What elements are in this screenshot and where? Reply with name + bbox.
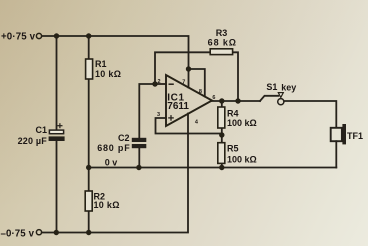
- svg-text:7611: 7611: [167, 101, 189, 112]
- svg-text:100 kΩ: 100 kΩ: [227, 118, 257, 128]
- resistor R1: [86, 59, 93, 79]
- svg-text:C1: C1: [35, 125, 47, 135]
- svg-text:68 kΩ: 68 kΩ: [208, 38, 237, 48]
- wire bottom -0.75V rail: [42, 114, 188, 233]
- svg-text:R1: R1: [95, 59, 107, 69]
- capacitor C1 bottom plate: [49, 136, 65, 141]
- svg-text:–0·75 v: –0·75 v: [1, 228, 35, 239]
- svg-text:+0·75 v: +0·75 v: [1, 32, 36, 43]
- wire switch lever: [260, 96, 278, 101]
- transformer TF1 body: [331, 128, 342, 141]
- svg-text:R5: R5: [227, 144, 239, 154]
- resistor R4: [218, 107, 225, 128]
- wire C1 top branch: [56, 36, 58, 131]
- op-amp plus input mark: [168, 115, 174, 121]
- node 0V / R5: [219, 165, 224, 170]
- wire C2 top branch to pin2: [139, 84, 155, 138]
- svg-text:220 µF: 220 µF: [18, 136, 48, 146]
- node pin7/8 strap: [186, 66, 191, 71]
- wire R4 top: [221, 101, 223, 107]
- wire pin 2 input: [155, 83, 166, 85]
- node R4 / R5 / pin3: [219, 132, 224, 137]
- capacitor C2 bottom plate: [132, 144, 147, 148]
- wire pin7/8 strap: [189, 69, 205, 97]
- node bottom rail / C1: [54, 230, 59, 235]
- capacitor C1 top plate: [49, 130, 63, 134]
- wire output pin6: [212, 100, 261, 102]
- terminal -0.75V: [36, 230, 41, 235]
- svg-text:10 kΩ: 10 kΩ: [95, 69, 121, 79]
- wire switch to TF1: [284, 101, 336, 127]
- op-amp U1 triangle: [166, 75, 212, 126]
- transformer TF1 bar: [342, 124, 346, 144]
- svg-text:680 pF: 680 pF: [97, 143, 130, 153]
- wire 0V line: [89, 167, 337, 169]
- wire R4 bottom: [221, 128, 223, 135]
- switch S1 contact triangle: [278, 93, 283, 98]
- wire R5 bottom: [221, 163, 223, 167]
- capacitor C2 top plate: [132, 138, 147, 142]
- svg-text:R3: R3: [216, 28, 228, 38]
- resistor R2: [85, 191, 92, 211]
- op-amp minus input mark: [169, 83, 174, 85]
- svg-text:TF1: TF1: [347, 131, 363, 141]
- svg-text:C2: C2: [118, 133, 130, 143]
- wire R5 top: [221, 135, 223, 143]
- node pin2 / R3 / C2: [152, 81, 157, 86]
- wire R3 right to output: [233, 52, 238, 101]
- svg-text:4: 4: [195, 119, 199, 125]
- wire top +0.75V rail: [42, 36, 189, 88]
- svg-text:7: 7: [182, 80, 185, 86]
- resistor R3: [210, 49, 232, 55]
- svg-text:3: 3: [157, 112, 160, 118]
- node 0V / R1 R2: [86, 165, 91, 170]
- node output / R3: [235, 98, 240, 103]
- svg-text:6: 6: [212, 95, 215, 101]
- svg-text:8: 8: [199, 89, 202, 95]
- node 0V / C2: [136, 165, 141, 170]
- svg-text:key: key: [281, 82, 296, 92]
- svg-text:100 kΩ: 100 kΩ: [227, 155, 257, 165]
- capacitor C1 polarity plus: [57, 123, 62, 128]
- svg-text:10 kΩ: 10 kΩ: [94, 200, 120, 210]
- node bottom rail / R2: [86, 230, 91, 235]
- wire pin 3 to R4/R5 node: [156, 118, 222, 134]
- wire R1 top branch: [88, 36, 90, 59]
- terminal +0.75V: [36, 33, 41, 38]
- wire R1 bottom to 0V node: [88, 79, 90, 191]
- wire C1 bottom branch: [56, 141, 58, 233]
- svg-text:2: 2: [158, 79, 161, 85]
- wire R3 left to pin2: [155, 52, 210, 84]
- node output / R4: [219, 98, 224, 103]
- svg-text:S1: S1: [266, 82, 277, 92]
- node top rail / R1: [86, 33, 91, 38]
- resistor R5: [218, 143, 225, 164]
- wire C2 bottom branch: [138, 148, 140, 168]
- wire R2 bottom branch: [88, 211, 90, 233]
- wire TF1 bottom: [335, 141, 337, 167]
- node top rail / C1: [54, 33, 59, 38]
- svg-text:0 v: 0 v: [105, 157, 118, 167]
- switch S1 contact circle: [278, 99, 284, 105]
